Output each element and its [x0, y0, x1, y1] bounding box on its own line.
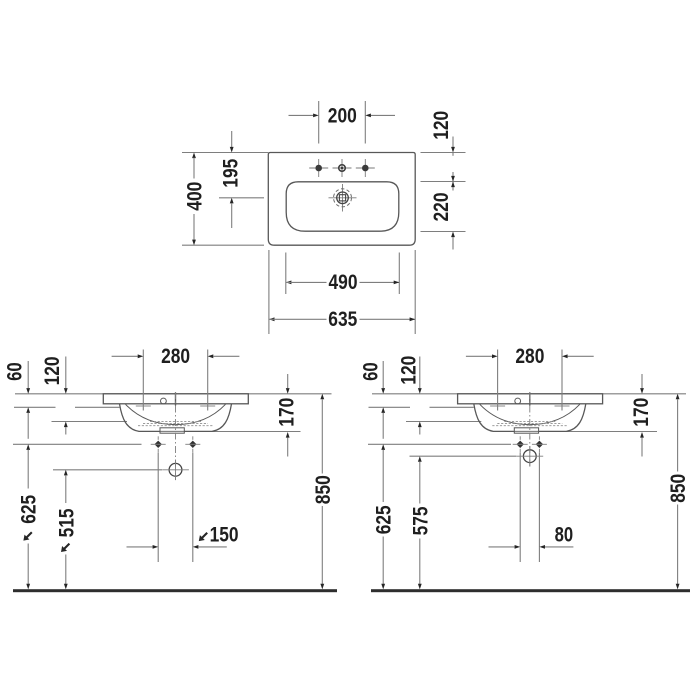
right elevation bowl waterline texture — [492, 422, 567, 426]
right elevation fixing hole 1 — [513, 436, 528, 452]
left elevation dim text 150 — [199, 524, 239, 547]
right elevation siphon outlet circle — [517, 446, 544, 466]
left elevation bowl inner curve — [126, 404, 226, 424]
right elevation tap hole circle — [515, 398, 521, 404]
left elevation fixing hole extension line — [13, 443, 142, 445]
svg-text:280: 280 — [515, 345, 544, 368]
left elevation washbasin rim bar — [103, 394, 248, 404]
right extension line bowl front — [421, 231, 466, 233]
right dim 575 line — [418, 456, 422, 589]
dimension text 490 — [329, 271, 358, 294]
dimension 490 line and arrows — [286, 281, 400, 285]
svg-text:195: 195 — [219, 158, 242, 187]
right dim text 625 — [373, 505, 396, 534]
dimension 195 bottom arrow — [230, 198, 234, 228]
tap hole 1 crosshair — [309, 159, 328, 177]
svg-text:60: 60 — [4, 362, 27, 381]
dimension 220 bottom arrow — [451, 232, 455, 250]
svg-text:170: 170 — [276, 398, 299, 427]
right extension line rear edge — [421, 152, 466, 154]
svg-text:120: 120 — [397, 356, 420, 385]
left elevation vertical centre line — [175, 392, 177, 482]
right elevation rim top edge line — [372, 393, 686, 395]
svg-text:170: 170 — [630, 398, 653, 427]
dimension 120/220 shared arrows — [451, 172, 455, 191]
left elevation bowl waterline texture — [138, 422, 213, 426]
dimension 195 top arrow — [230, 131, 234, 153]
left elevation dim 150 line and arrows — [127, 545, 227, 549]
right floor line — [371, 589, 690, 592]
right dim text 170 — [630, 398, 653, 427]
svg-text:60: 60 — [359, 362, 382, 381]
right dim 60 arrows — [381, 361, 385, 439]
right elevation fixing hole 2 — [532, 436, 547, 452]
left elevation bowl outer profile — [120, 404, 232, 432]
tap hole 3 crosshair — [356, 159, 375, 177]
dimension text 400 — [184, 182, 207, 211]
left dim 120 arrows — [64, 357, 68, 435]
dimension text 635 — [328, 308, 357, 331]
left elevation siphon outlet circle — [162, 460, 189, 480]
left dim text 625 — [18, 495, 41, 541]
dimension 635 line and arrows — [269, 317, 415, 321]
left dim 60 arrows — [26, 361, 30, 439]
left extension line rear edge — [182, 152, 268, 154]
right dim 120 arrows — [418, 357, 422, 435]
svg-text:625: 625 — [18, 495, 41, 524]
svg-text:400: 400 — [184, 182, 207, 211]
svg-text:850: 850 — [312, 475, 335, 504]
left dim 170 line — [286, 374, 290, 457]
svg-text:220: 220 — [430, 193, 453, 222]
left elevation fixing hole 2 — [185, 436, 200, 452]
left elevation dim text 280 — [161, 345, 190, 368]
svg-text:120: 120 — [41, 356, 64, 385]
right elevation bowl bottom extension — [566, 431, 657, 433]
right elevation drain fitting — [514, 428, 538, 433]
right elevation vertical centre line — [529, 392, 531, 469]
right elevation bowl inner curve — [480, 404, 580, 424]
left elevation dim 280 extension lines — [143, 350, 207, 411]
dimension text 195 — [219, 158, 242, 187]
inner basin bowl outline — [286, 182, 399, 231]
svg-text:490: 490 — [329, 271, 358, 294]
svg-text:150: 150 — [210, 524, 239, 547]
svg-text:120: 120 — [430, 111, 453, 140]
left elevation siphon extension line — [53, 469, 162, 471]
left dim 515 line — [64, 470, 68, 590]
svg-text:625: 625 — [373, 505, 396, 534]
left elevation rim top edge line — [15, 393, 332, 395]
left elevation dim 280 centre ticks — [136, 405, 215, 407]
svg-text:80: 80 — [555, 524, 574, 547]
left dim text 120 — [41, 356, 64, 385]
left extension line front edge — [182, 244, 264, 246]
left elevation ref line 120 — [52, 421, 128, 423]
dimension 490 extension lines — [286, 253, 400, 295]
right elevation fixing hole centre lines down — [520, 453, 539, 563]
dimension text 200 — [328, 104, 357, 127]
right elevation dim 280 centre ticks — [490, 405, 569, 407]
left dim text 170 — [276, 398, 299, 427]
svg-text:850: 850 — [667, 474, 690, 503]
svg-text:635: 635 — [328, 308, 357, 331]
svg-text:515: 515 — [55, 508, 78, 537]
left elevation dim 280 line and arrows — [112, 354, 240, 358]
drain with overflow crosshair — [329, 184, 357, 212]
left elevation drain fitting — [160, 428, 184, 433]
tap hole 2 crosshair — [333, 159, 352, 177]
right elevation ref line 60 — [369, 406, 474, 408]
svg-text:575: 575 — [409, 506, 432, 535]
right elevation dim text 280 — [515, 345, 544, 368]
right elevation fixing hole extension line — [368, 443, 511, 445]
right elevation ref line 120 — [406, 421, 481, 423]
dimension 635 extension lines — [269, 250, 415, 334]
right extension line bowl rear — [421, 181, 466, 183]
svg-text:200: 200 — [328, 104, 357, 127]
svg-text:280: 280 — [161, 345, 190, 368]
right elevation dim 280 line and arrows — [466, 354, 594, 358]
dimension text 120 top view — [430, 111, 453, 140]
right dim 170 line — [640, 374, 644, 457]
right elevation dim 80 line and arrows — [489, 545, 574, 549]
right elevation washbasin rim bar — [458, 394, 603, 404]
left extension line drain centre — [219, 197, 264, 199]
right dim text 120 — [397, 356, 420, 385]
left floor line — [13, 589, 337, 592]
left dim text 850 — [312, 475, 335, 504]
right elevation dim 280 extension lines — [498, 350, 562, 411]
right elevation bowl outer profile — [474, 404, 586, 432]
left dim 850 line — [320, 394, 324, 590]
left dim 625 line — [26, 444, 30, 589]
right elevation siphon extension line — [410, 455, 517, 457]
dimension 400 line with arrows — [192, 153, 196, 246]
dimension 200 line and arrows — [289, 114, 396, 118]
left elevation fixing hole 1 — [151, 436, 166, 452]
left elevation tap hole circle — [161, 398, 167, 404]
left dim text 515 — [55, 508, 78, 552]
right elevation dim text 80 — [555, 524, 574, 547]
right dim text 850 — [667, 474, 690, 503]
right dim 850 line — [676, 394, 680, 590]
right dim 625 line — [381, 444, 385, 589]
dimension 120 line — [451, 137, 455, 156]
dimension 200 extension lines — [319, 101, 366, 144]
left dim text 60 — [4, 362, 27, 381]
dimension text 220 — [430, 193, 453, 222]
left elevation fixing hole centre lines down — [158, 453, 193, 563]
left elevation ref line 60 — [14, 406, 120, 408]
right dim text 60 — [359, 362, 382, 381]
right dim text 575 — [409, 506, 432, 535]
washbasin top view outer body 635x400 — [268, 153, 415, 246]
left elevation bowl bottom extension — [212, 431, 301, 433]
